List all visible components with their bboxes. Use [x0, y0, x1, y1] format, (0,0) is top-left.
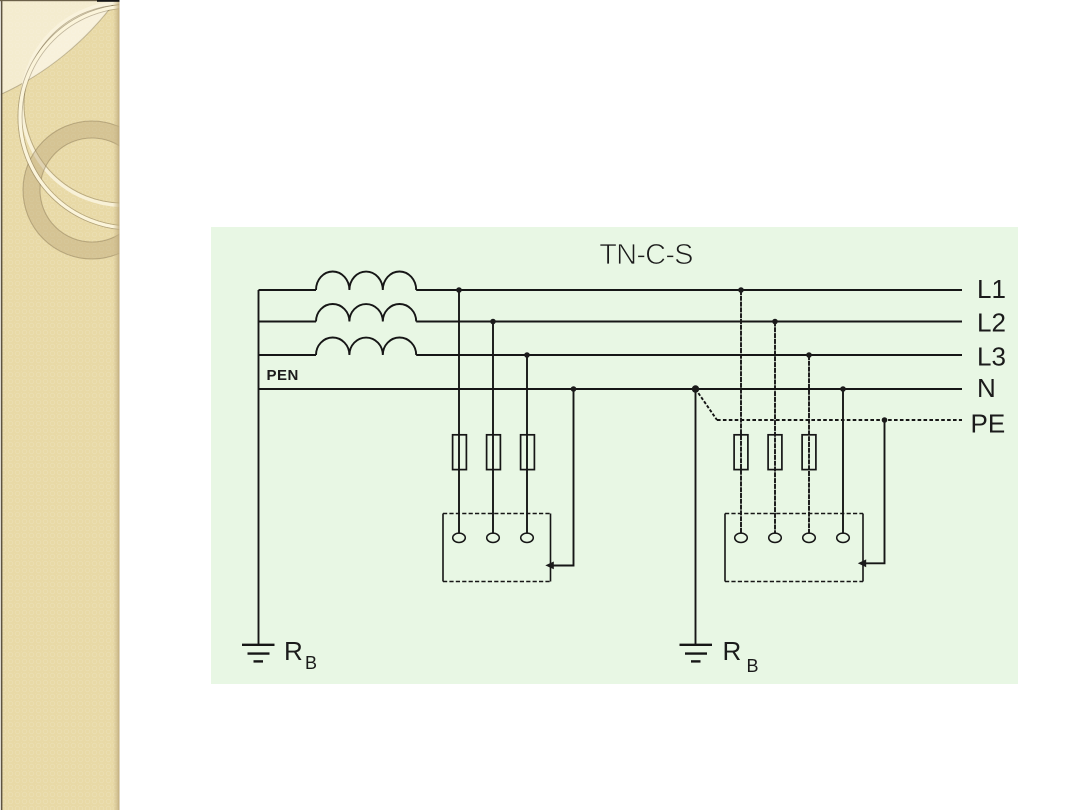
node dot L3/load1: [524, 352, 530, 358]
terminal circle 2c: [803, 533, 816, 542]
node dot L3/load2: [806, 352, 812, 358]
svg-text:PEN: PEN: [267, 367, 299, 384]
terminal circle 2d: [837, 533, 850, 542]
fuse F4: [734, 435, 748, 470]
light top-left overlay: [0, 0, 116, 95]
fuse F5: [768, 435, 782, 470]
wire L3 main run: [416, 354, 962, 356]
wire PE dashed run: [717, 419, 962, 421]
wire N (PEN) main run: [259, 388, 963, 390]
wire: PE drop to load 2: [866, 420, 885, 563]
svg-text:B: B: [305, 653, 317, 673]
node dot PEN split: [692, 385, 699, 392]
wire L2 left segment: [259, 321, 317, 323]
decorative sidebar (Oriel theme): [0, 0, 244, 810]
svg-text:TN-C-S: TN-C-S: [599, 239, 693, 271]
inductor winding L3: [316, 337, 416, 355]
svg-text:N: N: [977, 373, 996, 403]
diagram panel: [211, 227, 1018, 684]
fuse F2: [487, 435, 501, 470]
wire: L3 drop to fuse group 2: [808, 355, 810, 533]
ground RB1: [242, 645, 275, 662]
fuse F6: [802, 435, 816, 470]
arrow into load 1: [545, 562, 554, 570]
wire PE split diagonal: [696, 389, 718, 420]
wire: L2 drop to fuse group 1: [492, 322, 494, 534]
wire: N drop to load 1: [553, 389, 574, 566]
node dot L1/load1: [456, 287, 462, 293]
fuse F1: [453, 435, 467, 470]
bar borders: [113, 0, 120, 810]
ground RB2: [680, 645, 713, 662]
leaf highlight between arcs: [26, 8, 110, 82]
svg-text:L2: L2: [977, 308, 1006, 338]
node dot PE/load2: [882, 417, 888, 423]
node dot N/load1: [571, 386, 577, 392]
terminal circle 1a: [453, 533, 466, 542]
arrow into load 2: [858, 559, 866, 567]
wire: left vertical bus from L1 down to earth RB1: [258, 290, 260, 644]
dark translucent ring: [32, 130, 153, 251]
load box 1: [443, 514, 551, 582]
wire L2 main run: [416, 321, 962, 323]
svg-text:PE: PE: [971, 409, 1006, 439]
wire L3 left segment: [259, 354, 317, 356]
load box 2: [725, 514, 863, 582]
wire: earth drop for node PEN/N split: [695, 389, 697, 644]
node dot L2/load2: [772, 319, 778, 325]
svg-text:R: R: [723, 636, 742, 666]
fuse F3: [521, 435, 535, 470]
terminal circle 2b: [769, 533, 782, 542]
node dot N/load2: [840, 386, 846, 392]
svg-text:L1: L1: [977, 274, 1006, 304]
terminal circle 2a: [735, 533, 748, 542]
node dot L1/load2: [738, 287, 744, 293]
wire: L1 drop to fuse group 2: [740, 290, 742, 533]
svg-text:L3: L3: [977, 342, 1006, 372]
svg-text:R: R: [284, 636, 303, 666]
terminal circle 1c: [521, 533, 534, 542]
inductor winding L2: [316, 304, 416, 322]
inductor winding L1: [316, 271, 416, 290]
node dot L2/load1: [490, 319, 496, 325]
wire: L3 drop to fuse group 1: [526, 355, 528, 533]
wire L1 left segment: [259, 289, 317, 291]
big white circle outline: [18, 4, 244, 230]
wire L1 main run: [416, 289, 962, 291]
terminal circle 1b: [487, 533, 500, 542]
wire: L2 drop to fuse group 2: [774, 322, 776, 534]
wire: N drop to load 2: [842, 389, 844, 533]
wire: L1 drop to fuse group 1: [458, 290, 460, 533]
svg-text:B: B: [747, 656, 759, 676]
second cream circle: [24, 5, 222, 203]
